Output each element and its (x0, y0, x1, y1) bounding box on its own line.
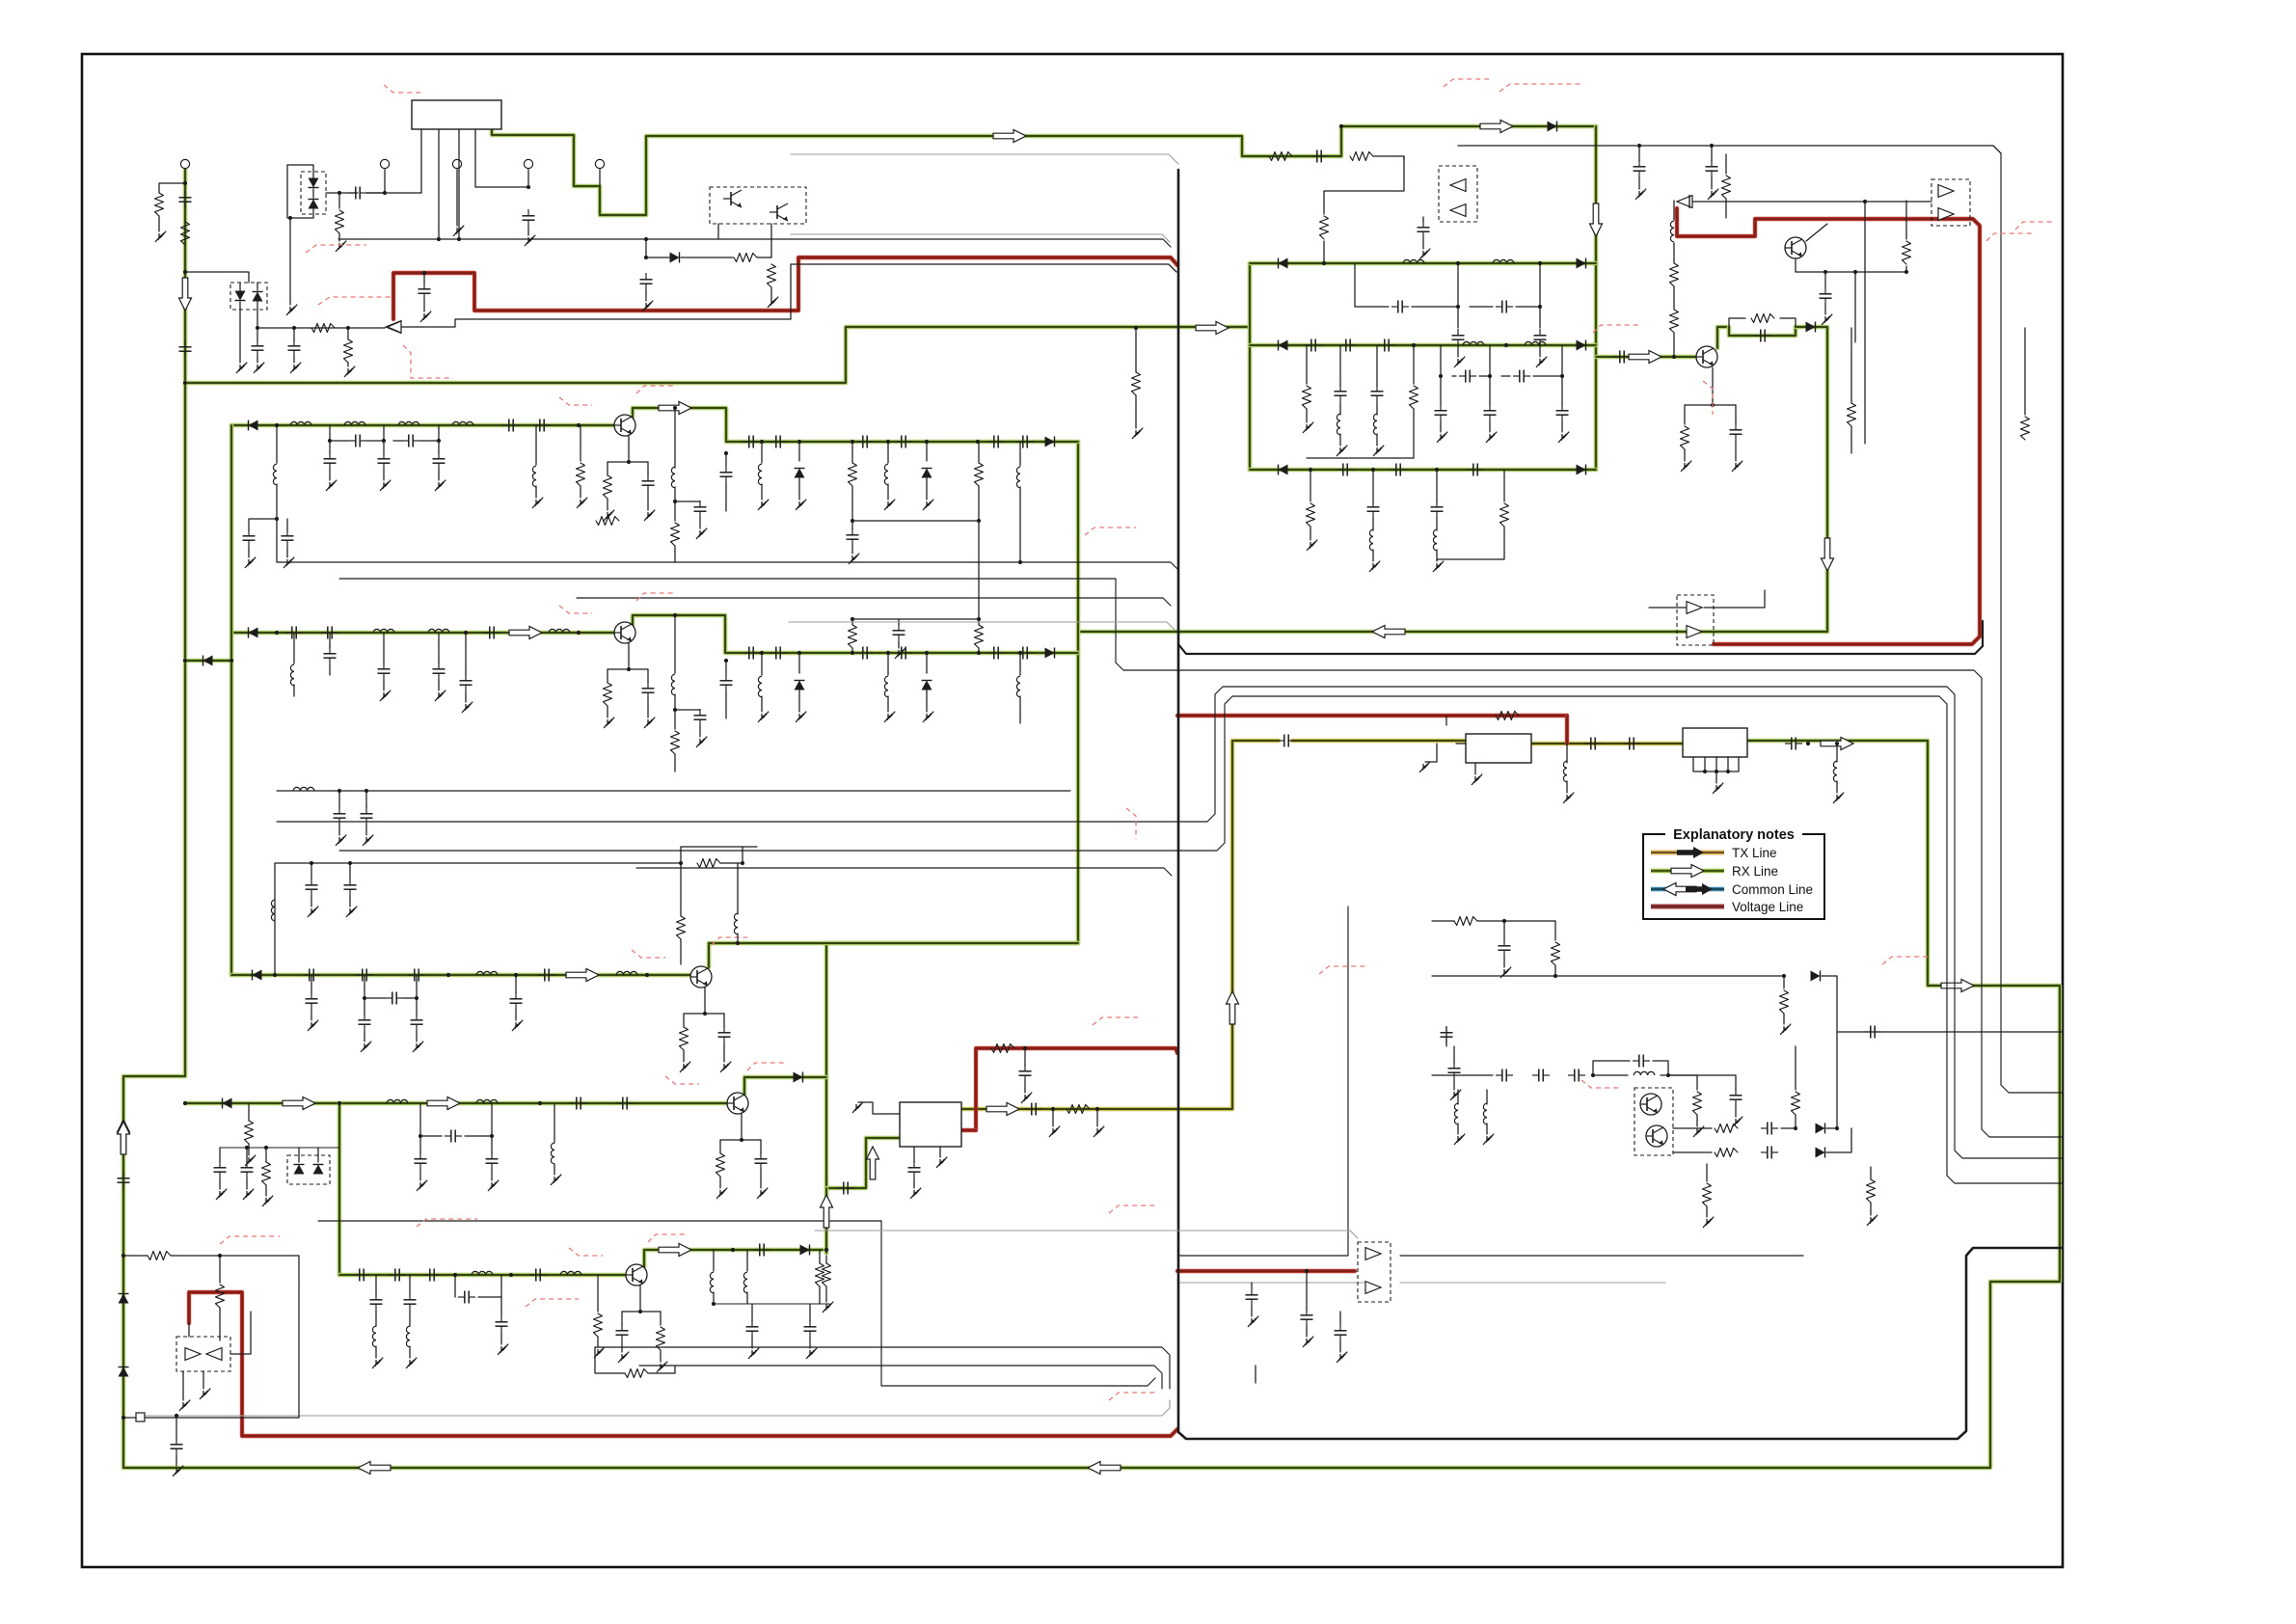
port P3 (452, 159, 461, 168)
node (183, 659, 187, 663)
wire (761, 653, 763, 675)
resistor (975, 625, 984, 648)
wire (645, 290, 647, 301)
node (122, 1416, 125, 1420)
capacitor (753, 1244, 770, 1257)
ground (326, 480, 337, 491)
wire (1306, 409, 1308, 422)
wire (311, 975, 312, 993)
callout (1085, 528, 1136, 535)
capacitor C46 (1367, 501, 1380, 518)
wire (713, 1292, 715, 1304)
callout (1986, 233, 2033, 241)
node (1435, 468, 1439, 472)
wire (725, 661, 727, 674)
node (437, 439, 441, 443)
buffer U3a (1450, 179, 1466, 192)
wire (1836, 781, 1838, 793)
capacitor (321, 627, 338, 639)
wire (365, 825, 367, 835)
inductor (1016, 467, 1020, 488)
dashed box U3 (1439, 166, 1477, 222)
wire (419, 1136, 421, 1153)
wire (851, 521, 853, 529)
wire (465, 691, 467, 702)
wire (312, 177, 314, 179)
wire (1854, 272, 1856, 342)
wire (1024, 1048, 1026, 1066)
wire (1096, 1109, 1098, 1126)
wire (1452, 375, 1456, 377)
wire (158, 216, 160, 231)
capacitor C7 (419, 283, 431, 300)
inductor (743, 1272, 747, 1293)
ground (823, 1302, 833, 1313)
capacitor C1 (179, 191, 192, 208)
wire (1024, 1082, 1026, 1093)
buffer U11a (1687, 602, 1702, 614)
wire (465, 1135, 492, 1137)
ground (512, 1020, 523, 1031)
capacitor C34 (1371, 385, 1384, 402)
capacitor C62 (1568, 1069, 1585, 1082)
wire (1696, 1075, 1698, 1090)
capacitor C41 (1754, 330, 1771, 342)
ground (884, 712, 895, 722)
capacitor (324, 452, 337, 470)
wire (819, 1286, 821, 1304)
capacitor (378, 452, 391, 470)
resistor (625, 1369, 648, 1378)
wire (1561, 421, 1563, 432)
capacitor C35 (1459, 370, 1476, 383)
wire (1653, 1061, 1668, 1075)
inductor (671, 674, 675, 695)
resistor R37 (1792, 1092, 1800, 1115)
signal arrow (821, 1195, 833, 1228)
dashed box U10 regulator (176, 1337, 230, 1371)
wire (851, 619, 853, 625)
wire (580, 425, 581, 461)
node (363, 996, 366, 1000)
resistor R33 (1454, 917, 1477, 926)
resistor (671, 523, 680, 546)
wire (1704, 590, 1765, 608)
ground (1536, 357, 1547, 367)
wire (1135, 395, 1137, 428)
legend Common arrow2 (1686, 883, 1713, 895)
capacitor (415, 1152, 427, 1170)
inductor (551, 1143, 554, 1164)
capacitor C67 (1761, 1147, 1778, 1159)
ground (644, 717, 655, 728)
capacitor (720, 466, 733, 483)
wire (1445, 1027, 1447, 1046)
wire (402, 264, 1176, 327)
wire (1412, 306, 1458, 308)
ground (1433, 561, 1444, 572)
wire (926, 690, 928, 712)
node (977, 651, 981, 655)
ground (284, 557, 294, 568)
diode D33 (1045, 648, 1055, 659)
node (1806, 742, 1810, 745)
ground (344, 366, 355, 377)
capacitor (694, 709, 707, 726)
wire bus I (639, 1366, 1162, 1389)
ground (1822, 314, 1832, 325)
inductor (549, 629, 570, 633)
wire (825, 1286, 827, 1302)
node (338, 191, 341, 195)
dashed box Q9 Q10 (1634, 1088, 1673, 1155)
node (383, 191, 387, 195)
wire (1503, 921, 1505, 940)
wire (416, 975, 418, 998)
node (731, 1248, 735, 1252)
capacitor C64 (1730, 1089, 1742, 1106)
wire (1323, 241, 1325, 263)
node (797, 440, 801, 444)
wire (535, 486, 537, 498)
wire (416, 1031, 418, 1042)
resistor R52 (823, 1263, 831, 1286)
callout (403, 345, 453, 378)
diode D5 (670, 253, 680, 263)
node (1710, 144, 1714, 148)
wire (176, 1418, 177, 1439)
wire (1425, 744, 1437, 762)
capacitor C52 (908, 1161, 921, 1178)
ground (1021, 1093, 1032, 1103)
wire (674, 463, 676, 468)
callout (1109, 1205, 1155, 1213)
wire (248, 547, 250, 557)
capacitor C43 (1337, 464, 1354, 476)
wire common bus bottom (141, 1400, 1170, 1416)
inductor (616, 971, 637, 975)
wire pin4 (1727, 757, 1729, 771)
capacitor C5 (523, 209, 535, 227)
wire (719, 1140, 721, 1153)
capacitor C30 (1305, 339, 1322, 352)
node (419, 1134, 422, 1138)
node (1782, 974, 1786, 978)
resistor (716, 1153, 725, 1177)
capacitor (306, 879, 318, 896)
transistor Q9 (1640, 1094, 1661, 1115)
wire (1539, 263, 1541, 307)
wire (1310, 470, 1311, 501)
signal arrow (1590, 203, 1603, 236)
capacitor (987, 647, 1005, 660)
ground (363, 835, 373, 846)
legend RX line (1651, 869, 1724, 874)
inductor (758, 676, 762, 697)
wire (1019, 487, 1021, 562)
inductor L5 (273, 464, 277, 485)
wire (257, 357, 258, 363)
ground (680, 1062, 690, 1072)
wire (1355, 263, 1389, 307)
resistor R50 (148, 1252, 171, 1260)
ground (806, 1348, 817, 1359)
wire voltage tap2 (1177, 1269, 1355, 1273)
buffer U4b (1938, 208, 1954, 221)
node (464, 631, 468, 635)
wire (674, 710, 676, 729)
resistor R30 (1067, 1105, 1090, 1114)
inductor (710, 1272, 714, 1293)
node (175, 1414, 178, 1418)
wire (939, 1147, 941, 1157)
capacitor C51 (1025, 1103, 1042, 1116)
node (1504, 343, 1508, 347)
callout (559, 606, 592, 613)
resistor R32 (1496, 712, 1519, 720)
wire (366, 440, 384, 442)
inductor (428, 629, 449, 633)
node (230, 659, 233, 663)
ground (200, 1389, 210, 1399)
op-amp U2 (386, 321, 401, 334)
capacitor C63 (1633, 1055, 1650, 1068)
resistor R36 (1693, 1092, 1702, 1115)
wire (515, 1010, 517, 1020)
capacitor (510, 992, 523, 1010)
wire (1685, 367, 1713, 405)
ground (936, 1157, 947, 1168)
ground (245, 557, 256, 568)
transistor Q1 (723, 190, 742, 207)
wire (1306, 1271, 1308, 1310)
callout (1703, 381, 1713, 415)
wire (338, 825, 340, 835)
ground (604, 717, 614, 728)
capacitor (743, 436, 760, 448)
wire (1865, 201, 1931, 203)
wire (1019, 442, 1021, 466)
capacitor (378, 663, 391, 680)
wire (1593, 1074, 1628, 1076)
wire RX blk2 row3 (1250, 468, 1596, 473)
wire (438, 425, 440, 441)
node (1711, 403, 1715, 407)
capacitor C32 (1378, 339, 1395, 352)
wire (375, 1346, 377, 1358)
buffer U5 (1677, 196, 1692, 208)
wire (478, 1275, 501, 1297)
ground (796, 712, 806, 722)
capacitor (458, 1291, 475, 1304)
wire voltage rail bottom (189, 1292, 1177, 1436)
wire (265, 1148, 267, 1162)
node (925, 440, 929, 444)
signal arrow (1227, 991, 1239, 1024)
wire (607, 669, 608, 683)
wire (1432, 920, 1454, 922)
wire (621, 1312, 623, 1325)
capacitor C47 (1431, 501, 1444, 518)
capacitor (529, 1269, 547, 1282)
capacitor C59 (1864, 1026, 1881, 1039)
wire (326, 192, 339, 194)
signal arrow (1822, 538, 1834, 571)
wire (713, 1250, 715, 1271)
capacitor C61 (1532, 1069, 1550, 1082)
signal arrow (1941, 980, 1974, 992)
capacitor C26 (1391, 301, 1409, 313)
inductor (560, 1271, 581, 1275)
ground (155, 231, 166, 242)
dashed box U11 (1677, 595, 1714, 645)
wire (123, 1417, 136, 1419)
node (457, 237, 461, 241)
wire (798, 690, 800, 712)
ground (1450, 1090, 1461, 1100)
wire voltage mixer (976, 1048, 1177, 1130)
node (851, 440, 854, 444)
resistor (604, 683, 612, 706)
capacitor (570, 1097, 587, 1110)
signal arrow (659, 1244, 691, 1257)
ground (1132, 428, 1143, 439)
capacitor (856, 436, 874, 448)
wire (1533, 375, 1562, 377)
wire (746, 1250, 748, 1271)
wire buffer out (1400, 1255, 1803, 1257)
wire (1445, 716, 1447, 725)
node (1502, 919, 1506, 923)
wire (527, 227, 529, 235)
svg-text:Voltage Line: Voltage Line (1732, 900, 1803, 914)
ground (380, 690, 391, 701)
signal arrow (118, 1122, 130, 1154)
wire (1729, 318, 1745, 327)
inductor (293, 787, 314, 791)
port J1 antenna (180, 159, 189, 168)
ground (594, 1347, 605, 1358)
wire (798, 442, 800, 461)
wire (647, 492, 649, 510)
wire (293, 357, 295, 363)
callout (1581, 1080, 1620, 1088)
wire (311, 896, 312, 907)
capacitor (344, 879, 357, 896)
wire (419, 1170, 421, 1180)
node (1371, 468, 1375, 472)
capacitor (349, 435, 366, 447)
wire (1440, 421, 1442, 432)
legend RX arrow (1671, 865, 1704, 878)
ground (1307, 540, 1317, 551)
wire (158, 183, 160, 193)
node (310, 861, 313, 865)
wire (383, 425, 385, 441)
node (218, 1254, 222, 1258)
wire (1735, 441, 1737, 461)
node (275, 517, 279, 521)
wire (1372, 518, 1374, 530)
wire (347, 328, 349, 339)
wire (188, 1323, 190, 1337)
node (1863, 200, 1867, 203)
ground (577, 498, 587, 508)
wire (1539, 307, 1541, 328)
node (724, 659, 728, 663)
transistor Q11 (626, 1264, 647, 1286)
node (577, 423, 581, 427)
ground (1094, 1126, 1104, 1137)
wire (699, 518, 701, 528)
node (365, 789, 368, 793)
wire (770, 224, 772, 257)
capacitor (847, 528, 859, 546)
wire (1706, 1206, 1708, 1217)
wire (276, 484, 278, 519)
capacitor C68 (1448, 1062, 1461, 1079)
wire (1339, 1341, 1341, 1352)
capacitor (433, 663, 446, 680)
wire RX row1 (231, 423, 614, 428)
ground (216, 1189, 227, 1200)
wire RX blk2 row2 (1250, 343, 1596, 348)
capacitor (285, 627, 303, 639)
ground (884, 500, 895, 510)
capacitor C36 (1513, 370, 1530, 383)
wire (257, 302, 258, 340)
wire voltage tap1 drop (1565, 716, 1569, 744)
wire RX right spine (1594, 126, 1599, 470)
legend TX arrow (1677, 847, 1704, 858)
node (1794, 1126, 1797, 1130)
ground (1369, 561, 1380, 572)
wire (674, 754, 676, 771)
capacitor (359, 1014, 371, 1031)
wire (1855, 271, 1906, 273)
wire (554, 1103, 555, 1143)
ground (716, 1188, 727, 1199)
callout (1444, 79, 1490, 87)
resistor R7 (344, 339, 353, 363)
wire (366, 192, 421, 194)
resistor (680, 1027, 689, 1050)
capacitor (306, 992, 318, 1010)
wire (1692, 201, 1865, 203)
wire (1696, 1115, 1698, 1126)
wire (1413, 345, 1415, 384)
signal arrow (1088, 1462, 1121, 1475)
wire (1711, 146, 1713, 161)
wire (527, 170, 529, 187)
ground (758, 712, 769, 722)
wire (675, 501, 700, 502)
wire (329, 470, 331, 480)
wire (629, 461, 648, 463)
ground (895, 648, 905, 659)
callout (1499, 84, 1581, 92)
node (1904, 270, 1908, 274)
inductor (373, 629, 394, 633)
node (1726, 770, 1730, 773)
ground (308, 1020, 318, 1031)
wire (1826, 1128, 1851, 1152)
node (1322, 261, 1326, 265)
resistor R51 (216, 1285, 225, 1308)
wire (239, 302, 241, 363)
wire (438, 633, 440, 663)
wire bus D (339, 579, 2063, 1137)
